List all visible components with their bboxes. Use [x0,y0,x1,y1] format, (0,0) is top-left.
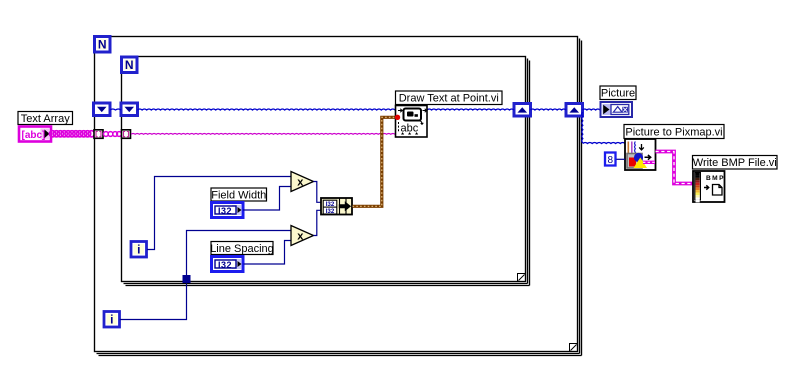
wire: Field Width to top multiply [243,187,291,211]
inner loop count terminal N [122,57,138,73]
subVI icon Write BMP File.vi [693,171,725,202]
control terminal Text Array [abc] [19,127,51,142]
wire picture: inner left SR to Draw Text icon [138,109,396,110]
outer loop left shift register [94,103,111,116]
wire picture: Draw Text icon to inner right SR [427,109,514,110]
outer loop resize corner glyph [570,344,578,352]
inner for-loop frame (stacked border) [122,57,530,286]
svg-text:N: N [98,37,107,51]
outer loop iteration terminal i [104,312,120,328]
inner loop tunnel [] on Text Array wire [122,130,131,139]
svg-text:Picture to Pixmap.vi: Picture to Pixmap.vi [625,126,722,138]
wire: inner i up to top multiply [147,177,291,250]
wire: tunnel up to bottom multiply [187,231,292,276]
numeric constant 8 [605,153,616,167]
subVI icon Draw Text at Point.vi [396,106,428,138]
svg-text:BMP: BMP [706,175,724,182]
multiply node (line spacing x i) [291,226,314,246]
wire picture: outer right SR to Picture terminal [583,109,601,110]
inner loop resize corner glyph [518,274,526,282]
svg-text:I32: I32 [326,208,335,215]
multiply node (field width x i) [291,172,314,192]
label Field Width [211,188,267,201]
label Write BMP File.vi [693,156,778,170]
svg-text:x: x [297,231,304,243]
label Picture [600,86,636,100]
inner loop right shift register [514,104,531,117]
svg-text:I32: I32 [218,206,232,216]
wire: top multiply to bundle [314,182,322,203]
svg-text:Draw Text at Point.vi: Draw Text at Point.vi [399,93,499,105]
outer for-loop frame (stacked border) [95,37,582,356]
svg-text:Field Width: Field Width [211,189,266,201]
svg-text:i: i [110,313,113,327]
outer loop count terminal N [95,37,111,53]
svg-text:Write BMP File.vi: Write BMP File.vi [693,157,777,169]
svg-text:[abc]: [abc] [22,130,46,141]
control terminal Line Spacing I32 [212,257,244,272]
wire picture: branch down to Picture-to-Pixmap [582,112,625,144]
label Draw Text at Point.vi [396,91,503,105]
label Text Array [18,112,73,125]
tunnel (solid square) on inner loop bottom for outer i wire [183,275,191,283]
wire picture: outer left SR to inner left SR [110,109,121,110]
svg-text:Line Spacing: Line Spacing [210,243,274,255]
label Picture to Pixmap.vi [624,125,724,139]
coercion dot (red) at Draw Text cluster input [395,115,400,120]
svg-text:Picture: Picture [601,88,635,100]
control terminal Field Width I32 [212,203,244,218]
wire 1D string array: outer tunnel to inner tunnel [104,132,122,137]
wire string: inner tunnel to Draw Text icon [131,133,395,136]
svg-text:I32: I32 [218,260,232,270]
wire picture: inner right SR to outer right SR [531,109,567,110]
bundle node [321,198,352,215]
svg-text:Text Array: Text Array [21,113,70,125]
wire: outer i to inner-loop tunnel [120,284,187,320]
outer loop tunnel [] on Text Array wire [94,130,103,139]
indicator terminal Picture [601,102,633,117]
label Line Spacing [210,242,274,255]
svg-text:x: x [297,177,304,189]
inner loop iteration terminal i [131,242,147,258]
wire: constant 8 to Picture to Pixmap [617,158,626,160]
svg-text:i: i [137,243,140,257]
subVI icon Picture to Pixmap.vi [625,139,656,170]
wire: Line Spacing to bottom multiply [244,241,292,265]
svg-text:N: N [125,58,134,72]
wire 2D string array: Text Array to outer tunnel [49,131,94,137]
wire cluster (brown): bundle to Draw Text icon [353,117,396,206]
inner loop left shift register [121,103,138,116]
wire: bottom multiply to bundle [314,210,322,235]
outer loop right shift register [566,104,583,117]
svg-text:8: 8 [608,155,614,166]
wire pixmap cluster (pink dashed): Pixmap to Write BMP [656,152,694,184]
